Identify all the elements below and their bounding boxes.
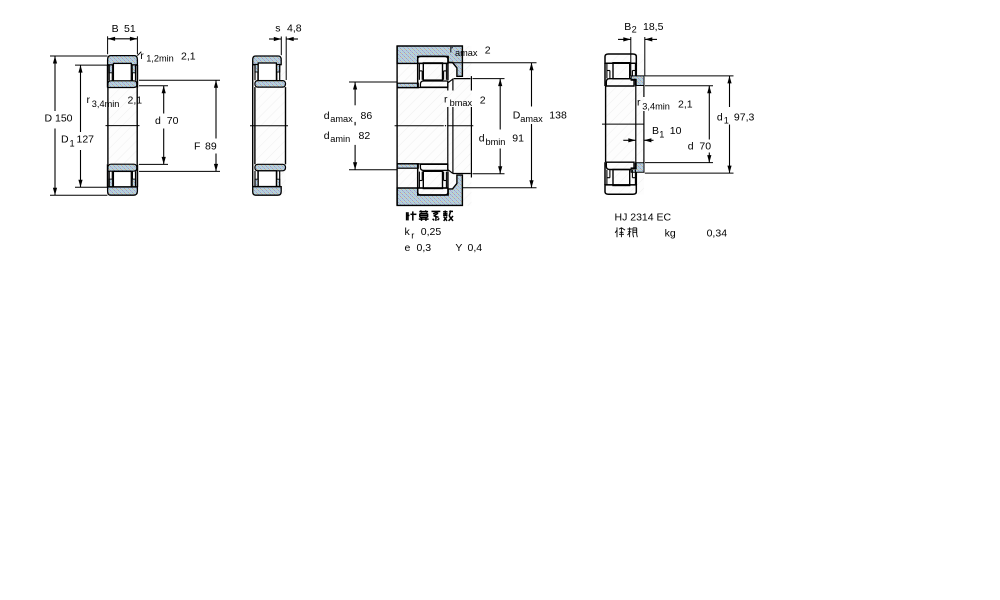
bearing 1 outer ring top section bbox=[108, 56, 138, 65]
svg-text:d: d bbox=[324, 110, 330, 122]
dimension D 150 bbox=[50, 55, 107, 57]
svg-text:r: r bbox=[450, 44, 454, 56]
bearing 2 top roller bbox=[258, 63, 276, 81]
svg-text:2: 2 bbox=[480, 94, 486, 106]
svg-text:amax: amax bbox=[455, 48, 478, 58]
bearing 3 bottom roller bbox=[423, 171, 442, 188]
spacer line b bbox=[452, 79, 454, 91]
HJ angle ring bottom bbox=[631, 163, 644, 173]
svg-text:amax: amax bbox=[330, 114, 353, 124]
dimension d 70 (view 1) bbox=[139, 85, 168, 87]
bearing 1 inner ring bottom section bbox=[108, 164, 137, 171]
bearing 3 side faces bbox=[417, 63, 419, 87]
dimension B2 18,5 bbox=[630, 37, 632, 76]
bearing 2 inner ring top section bbox=[255, 81, 286, 88]
bore line top bbox=[397, 87, 448, 89]
bearing 1 bottom roller bbox=[113, 171, 131, 188]
bearing 2 axis line bbox=[250, 125, 288, 127]
svg-text:70: 70 bbox=[699, 141, 711, 153]
bearing 4 inner ring top bbox=[606, 79, 634, 86]
svg-text:1: 1 bbox=[724, 116, 729, 126]
spacer line a bbox=[447, 82, 449, 90]
svg-text:127: 127 bbox=[77, 134, 95, 146]
svg-text:amin: amin bbox=[330, 134, 350, 144]
svg-text:1: 1 bbox=[70, 139, 75, 149]
bearing 3 top flanges bbox=[418, 63, 420, 79]
svg-text:d: d bbox=[324, 130, 330, 142]
svg-text:D: D bbox=[61, 134, 69, 146]
svg-text:1: 1 bbox=[659, 129, 664, 139]
bearing 3 bottom flanges bbox=[418, 172, 420, 188]
svg-text:F: F bbox=[194, 140, 200, 152]
bearing 2 bottom roller bbox=[258, 171, 276, 189]
bearing 4 bottom roller bbox=[613, 170, 630, 186]
housing bottom section bbox=[397, 175, 462, 205]
svg-text:B: B bbox=[112, 23, 119, 35]
bearing 4 bore line left bbox=[605, 86, 607, 162]
svg-text:97,3: 97,3 bbox=[734, 111, 755, 123]
svg-text:91: 91 bbox=[512, 133, 524, 145]
svg-text:2: 2 bbox=[485, 44, 491, 56]
svg-text:r: r bbox=[444, 94, 448, 106]
dimension d 70 (view 4) bbox=[645, 85, 713, 87]
svg-text:3,4min: 3,4min bbox=[92, 99, 120, 109]
bearing 1 side faces bbox=[107, 65, 109, 88]
svg-text:r: r bbox=[411, 230, 414, 240]
bearing 4 top roller bbox=[613, 63, 630, 79]
svg-text:bmin: bmin bbox=[486, 137, 506, 147]
svg-text:r: r bbox=[637, 97, 641, 109]
sleeve bottom face bbox=[453, 173, 471, 175]
svg-text:kg: kg bbox=[665, 228, 676, 240]
svg-text:0,3: 0,3 bbox=[417, 242, 432, 254]
sleeve top face bbox=[454, 78, 471, 80]
svg-text:10: 10 bbox=[670, 125, 682, 137]
svg-text:82: 82 bbox=[359, 130, 371, 142]
dimension da max/min bbox=[349, 81, 397, 83]
bearing 4 side faces bbox=[604, 63, 606, 86]
bearing 3 top roller bbox=[423, 63, 442, 80]
dimension F 89 bbox=[139, 79, 220, 81]
dimension d1 97,3 bbox=[645, 75, 734, 77]
svg-text:B: B bbox=[624, 21, 631, 33]
dimension D1 127 bbox=[75, 64, 107, 66]
svg-text:0,4: 0,4 bbox=[468, 242, 483, 254]
axis line view 3 bbox=[395, 125, 444, 127]
svg-text:86: 86 bbox=[361, 110, 373, 122]
bearing 2 bottom flanges bbox=[255, 179, 258, 186]
bearing 3 inner ring bottom bbox=[420, 164, 447, 170]
bearing 3 inner ring top bbox=[420, 81, 447, 87]
dimension db min 91 bbox=[473, 78, 505, 80]
housing top section bbox=[397, 46, 462, 76]
bearing 4 outer ring top bbox=[605, 54, 636, 63]
bearing 1 inner ring bore silhouette bbox=[107, 88, 109, 165]
svg-text:89: 89 bbox=[205, 140, 217, 152]
sleeve right face bbox=[470, 76, 472, 90]
svg-text:70: 70 bbox=[167, 115, 179, 127]
bearing 3 outer ring bottom bbox=[418, 188, 448, 195]
sleeve chamfer bottom bbox=[448, 170, 453, 174]
svg-text:d: d bbox=[155, 115, 161, 127]
bearing 2 outer ring bottom section bbox=[253, 187, 282, 196]
svg-text:1,2min: 1,2min bbox=[146, 54, 174, 64]
axis line view 4 bbox=[602, 123, 644, 125]
bearing 4 inner ring bottom bbox=[606, 162, 634, 169]
bearing 1 top roller bbox=[113, 63, 131, 81]
dimension B1 10 bbox=[623, 139, 636, 141]
bearing 4 top flanges bbox=[606, 63, 608, 78]
bearing 2 inner ring bottom section bbox=[255, 164, 286, 171]
bearing 1 bottom flanges bbox=[109, 179, 112, 187]
svg-text:2,1: 2,1 bbox=[181, 51, 196, 63]
shaft seat bottom bbox=[397, 164, 418, 169]
svg-text:D 150: D 150 bbox=[45, 113, 73, 125]
bearing 3 outer ring top bbox=[418, 56, 448, 63]
svg-text:0,34: 0,34 bbox=[707, 228, 728, 240]
svg-text:2: 2 bbox=[632, 25, 637, 35]
label volume (Chinese) bbox=[616, 227, 618, 237]
svg-text:r: r bbox=[87, 94, 91, 106]
svg-text:0,25: 0,25 bbox=[421, 226, 442, 238]
dimension Da max 138 bbox=[448, 62, 536, 64]
svg-text:18,5: 18,5 bbox=[643, 21, 664, 33]
bearing 4 bottom flanges bbox=[606, 170, 608, 185]
svg-text:d: d bbox=[688, 141, 694, 153]
svg-text:HJ 2314 EC: HJ 2314 EC bbox=[615, 211, 672, 223]
svg-text:r: r bbox=[140, 50, 144, 62]
svg-text:B: B bbox=[652, 125, 659, 137]
bearing 1 axis line bbox=[106, 125, 140, 127]
bearing 2 outer ring left face line bbox=[252, 65, 254, 187]
svg-text:4,8: 4,8 bbox=[287, 23, 302, 35]
label calculation factors (Chinese) bbox=[406, 212, 408, 220]
label r 1,2min 2,1 bbox=[137, 52, 141, 56]
svg-text:51: 51 bbox=[124, 23, 136, 35]
shaft seat top bbox=[397, 83, 418, 88]
bearing 4 column right lines bbox=[635, 85, 637, 163]
shaft shoulder left face bbox=[396, 46, 398, 205]
hatched part interiors bbox=[108, 56, 138, 196]
dimension B 51 bbox=[107, 36, 109, 54]
bearing 1 top flanges bbox=[109, 65, 112, 73]
HJ angle ring top bbox=[631, 76, 644, 86]
svg-text:3,4min: 3,4min bbox=[642, 101, 670, 111]
bearing 2 outer ring top section bbox=[253, 56, 282, 65]
bearing 4 outer ring bottom bbox=[605, 185, 636, 194]
svg-text:s: s bbox=[275, 23, 280, 35]
svg-text:e: e bbox=[405, 242, 411, 254]
svg-text:d: d bbox=[479, 133, 485, 145]
bearing 2 top flanges bbox=[255, 65, 258, 72]
svg-text:2,1: 2,1 bbox=[128, 95, 143, 107]
svg-text:Y: Y bbox=[455, 242, 462, 254]
dimension s 4,8 bbox=[280, 37, 282, 56]
bearing 2 inner ring bore silhouette bbox=[254, 87, 256, 164]
sleeve chamfer top bbox=[448, 79, 453, 83]
svg-text:2,1: 2,1 bbox=[678, 98, 693, 110]
svg-text:amax: amax bbox=[520, 114, 543, 124]
bearing 1 inner ring top section bbox=[108, 81, 137, 88]
svg-text:138: 138 bbox=[549, 110, 567, 122]
bore line bottom bbox=[397, 163, 448, 165]
svg-text:d: d bbox=[717, 111, 723, 123]
bearing 1 outer ring bottom section bbox=[108, 187, 138, 195]
svg-text:bmax: bmax bbox=[450, 98, 473, 108]
svg-text:k: k bbox=[405, 226, 411, 238]
